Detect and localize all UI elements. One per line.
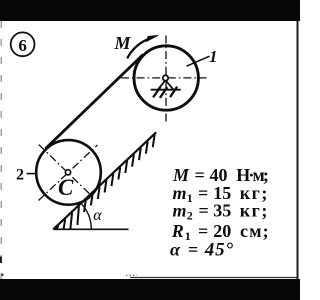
svg-text:M=40Н·м;: M=40Н·м;	[172, 165, 268, 185]
moment M arc	[127, 38, 150, 58]
moment M arrowhead	[146, 35, 158, 41]
pulley 1 horizontal center line	[121, 77, 207, 79]
task number circle badge	[11, 32, 35, 56]
bottom small dots	[126, 274, 137, 276]
bottom thin rule	[130, 277, 298, 279]
left border dashed line	[0, 21, 2, 279]
belt between disk 2 and pulley 1	[46, 54, 144, 148]
disk 2 center line perpendicular to incline	[39, 145, 95, 199]
disk 2 rim	[36, 140, 101, 205]
svg-text:α: α	[93, 207, 102, 224]
pulley 1 axle pin	[163, 75, 168, 80]
svg-text:C: C	[58, 175, 74, 200]
pulley 1 support triangle	[158, 80, 173, 89]
svg-text:M: M	[114, 33, 132, 53]
pulley 1 rim	[134, 46, 198, 110]
svg-text:2: 2	[16, 166, 24, 183]
left edge dot	[2, 274, 4, 277]
pulley 1 vertical center line	[165, 36, 167, 122]
incline surface line	[53, 132, 156, 229]
svg-text:1: 1	[209, 47, 218, 66]
bottom black bar	[0, 279, 300, 300]
right border line	[297, 21, 299, 279]
top black bar	[0, 0, 300, 21]
leader line for label 2	[27, 173, 37, 175]
pulley 1 support hatch slashes	[153, 87, 177, 98]
left edge tick mark	[0, 257, 2, 264]
angle alpha arc	[81, 203, 91, 229]
ground horizontal line	[53, 228, 128, 230]
pulley 1 support base line	[151, 89, 181, 91]
svg-text:6: 6	[18, 36, 27, 55]
leader line for label 1	[187, 56, 210, 66]
disk 2 center pin	[65, 170, 70, 175]
svg-text:α=45°: α=45°	[170, 239, 234, 260]
disk 2 center line parallel to incline	[39, 145, 98, 201]
incline hatch strokes	[57, 135, 155, 229]
